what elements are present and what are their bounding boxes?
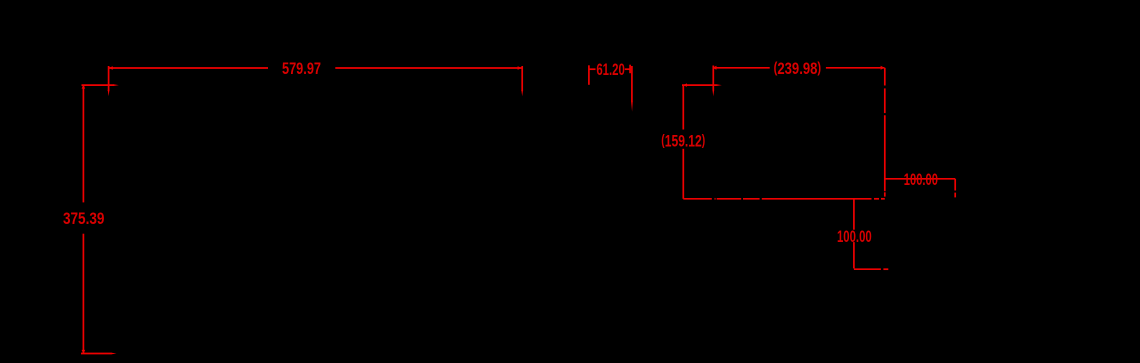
bottom reference line segment 3 — [743, 198, 760, 200]
dimension 375.39 top extension line — [82, 84, 115, 86]
dimension 100.00 right dim line — [885, 178, 955, 180]
dimension 61.20 right stub — [625, 68, 630, 70]
bottom reference line dash 5 — [874, 198, 879, 200]
dimension 100.00 bottom dim line upper segment — [853, 200, 855, 230]
svg-text:61.20: 61.20 — [596, 60, 625, 79]
arrowhead 159.12 top corner — [683, 83, 687, 86]
dimension (239.98) left extension line — [712, 66, 714, 91]
svg-text:100.00: 100.00 — [904, 170, 938, 189]
dimension 100.00 right drop dash — [954, 193, 956, 198]
arrowhead 579.97 right extension tip — [521, 90, 523, 96]
arrowhead 375.39 top corner — [82, 85, 86, 89]
dimension (239.98) dim line left segment — [713, 67, 769, 69]
svg-text:579.97: 579.97 — [282, 59, 321, 78]
dimension 579.97 left extension line — [108, 66, 110, 91]
dimension 375.39 dim line upper segment — [82, 85, 84, 202]
svg-text:375.39: 375.39 — [63, 209, 105, 228]
dimension 61.20 right extension line — [631, 66, 633, 102]
dimension 100.00 bottom dim line lower segment — [853, 242, 855, 268]
arrowhead 375.39 top extension tip — [114, 84, 119, 86]
arrowhead 239.98 left extension tip — [712, 90, 714, 96]
svg-text:(239.98): (239.98) — [774, 59, 822, 78]
dimension 375.39 bottom extension line — [81, 353, 112, 355]
dimension 61.20 right tick — [629, 65, 631, 74]
dimension (239.98) right extension line lower — [884, 115, 886, 191]
bottom reference line segment 4 — [762, 198, 872, 200]
arrowhead 579.97 left — [108, 66, 113, 70]
dimension 375.39 dim line lower segment — [82, 234, 84, 354]
arrowhead 61.20 right extension tip — [631, 101, 633, 112]
dimension 61.20 left tick and extension — [588, 65, 590, 85]
bottom reference line dash 6 — [881, 198, 885, 200]
arrowhead 159.12 top extension tip — [716, 84, 721, 86]
dimension (159.12) top extension line — [682, 84, 717, 86]
dimension 579.97 dim line left segment — [109, 67, 269, 69]
dimension (159.12) dim line lower segment — [682, 149, 684, 199]
arrowhead 239.98 right — [881, 66, 885, 70]
arrowhead 239.98 left — [712, 66, 716, 70]
bottom reference line dot — [715, 198, 716, 200]
arrowhead 579.97 right — [518, 66, 523, 70]
dimension 579.97 right extension line — [521, 66, 523, 91]
dimension 61.20 left stub — [589, 68, 596, 70]
dimension 100.00 bottom foot dash — [883, 268, 888, 270]
arrowhead 375.39 bottom corner — [82, 350, 86, 354]
dimension 100.00 right drop line — [954, 179, 956, 191]
bottom reference line segment 2 — [717, 198, 742, 200]
svg-text:100.00: 100.00 — [837, 227, 872, 246]
bottom reference line segment 1 — [683, 198, 712, 200]
dimension (239.98) right extension line mid — [884, 88, 886, 113]
dimension 100.00 bottom foot line — [854, 268, 881, 270]
arrowhead 375.39 bottom extension tip — [111, 353, 117, 355]
dimension (239.98) right extension line upper — [884, 68, 886, 86]
svg-text:(159.12): (159.12) — [661, 131, 705, 150]
dimension (239.98) right extension dash — [884, 192, 886, 196]
arrowhead 579.97 left extension tip — [108, 90, 110, 96]
dimension (159.12) dim line upper segment — [682, 85, 684, 129]
dimension (239.98) dim line right segment — [826, 67, 885, 69]
dimension 579.97 dim line right segment — [335, 67, 522, 69]
